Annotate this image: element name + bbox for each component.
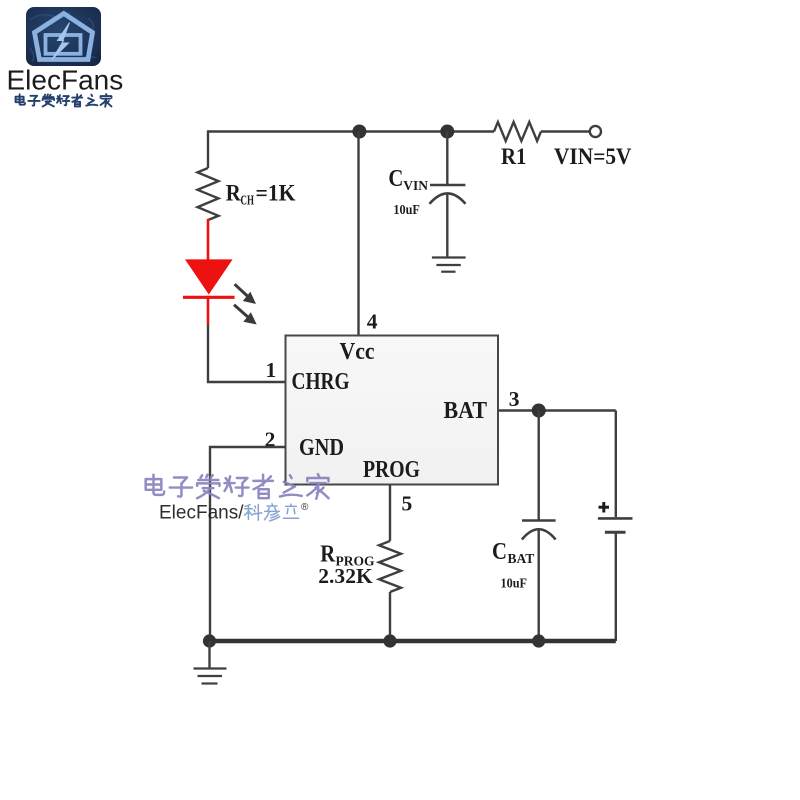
svg-text:2.32K: 2.32K [318, 564, 373, 588]
watermark [146, 474, 329, 523]
svg-text:3: 3 [509, 387, 520, 411]
LED arrows [234, 284, 255, 323]
svg-text:4: 4 [367, 310, 378, 334]
capacitor CBAT [522, 521, 556, 540]
svg-text:10uF: 10uF [501, 576, 528, 591]
svg-text:GND: GND [299, 435, 344, 461]
wire pin5 [389, 485, 391, 542]
wire anode (red) [207, 219, 210, 260]
battery BT1 [598, 411, 633, 642]
wire CBAT top [538, 411, 540, 521]
IC U1 (charger IC) [286, 336, 499, 485]
node junction CVIN [440, 125, 454, 139]
svg-text:®: ® [301, 502, 309, 513]
svg-text:5: 5 [402, 492, 413, 516]
label CBAT [492, 538, 534, 591]
svg-text:BAT: BAT [444, 398, 488, 424]
svg-text:CH: CH [241, 193, 255, 208]
label RCH=1K [226, 181, 296, 208]
svg-text:VIN: VIN [403, 178, 428, 193]
resistor RCH [198, 168, 219, 220]
node junction Vcc [352, 125, 366, 139]
svg-text:C: C [388, 165, 403, 192]
svg-text:ElecFans: ElecFans [7, 65, 124, 96]
svg-text:10uF: 10uF [393, 202, 420, 217]
svg-text:VIN=5V: VIN=5V [554, 144, 632, 169]
wire CBAT bottom [538, 530, 540, 642]
LED D1 [183, 259, 235, 324]
battery plus sign [599, 502, 610, 513]
resistor R1 [494, 122, 541, 141]
node junction bus left [203, 634, 216, 647]
wire left vertical to RCH [207, 130, 209, 168]
label CVIN [388, 165, 428, 217]
wire top bus [208, 130, 590, 132]
wire RPROG to bus [389, 592, 391, 641]
capacitor CVIN [430, 132, 466, 258]
terminal VIN [590, 126, 601, 137]
svg-text:CHRG: CHRG [292, 369, 350, 395]
svg-text:BAT: BAT [508, 551, 535, 566]
wire pin2 to bus [210, 447, 286, 641]
svg-text:PROG: PROG [363, 457, 420, 483]
node junction BAT [532, 404, 546, 418]
node junction bus RPROG [383, 634, 396, 647]
label RPROG [318, 541, 375, 589]
node junction bus CBAT [532, 634, 545, 647]
wire Vcc vertical [357, 132, 359, 336]
svg-text:C: C [492, 538, 507, 565]
svg-text:Vcc: Vcc [340, 339, 375, 365]
svg-text:R1: R1 [501, 144, 527, 169]
svg-text:R: R [226, 181, 242, 207]
ground symbol bottom [194, 641, 227, 684]
ground under CVIN [432, 258, 466, 272]
svg-text:=1K: =1K [256, 181, 297, 207]
logo [7, 7, 124, 107]
ground bus wire [207, 639, 616, 644]
svg-text:1: 1 [266, 358, 277, 382]
svg-text:ElecFans/: ElecFans/ [159, 503, 244, 524]
resistor RPROG [379, 541, 401, 592]
wire BAT [498, 409, 616, 411]
wire cathode to pin1 [208, 324, 286, 382]
